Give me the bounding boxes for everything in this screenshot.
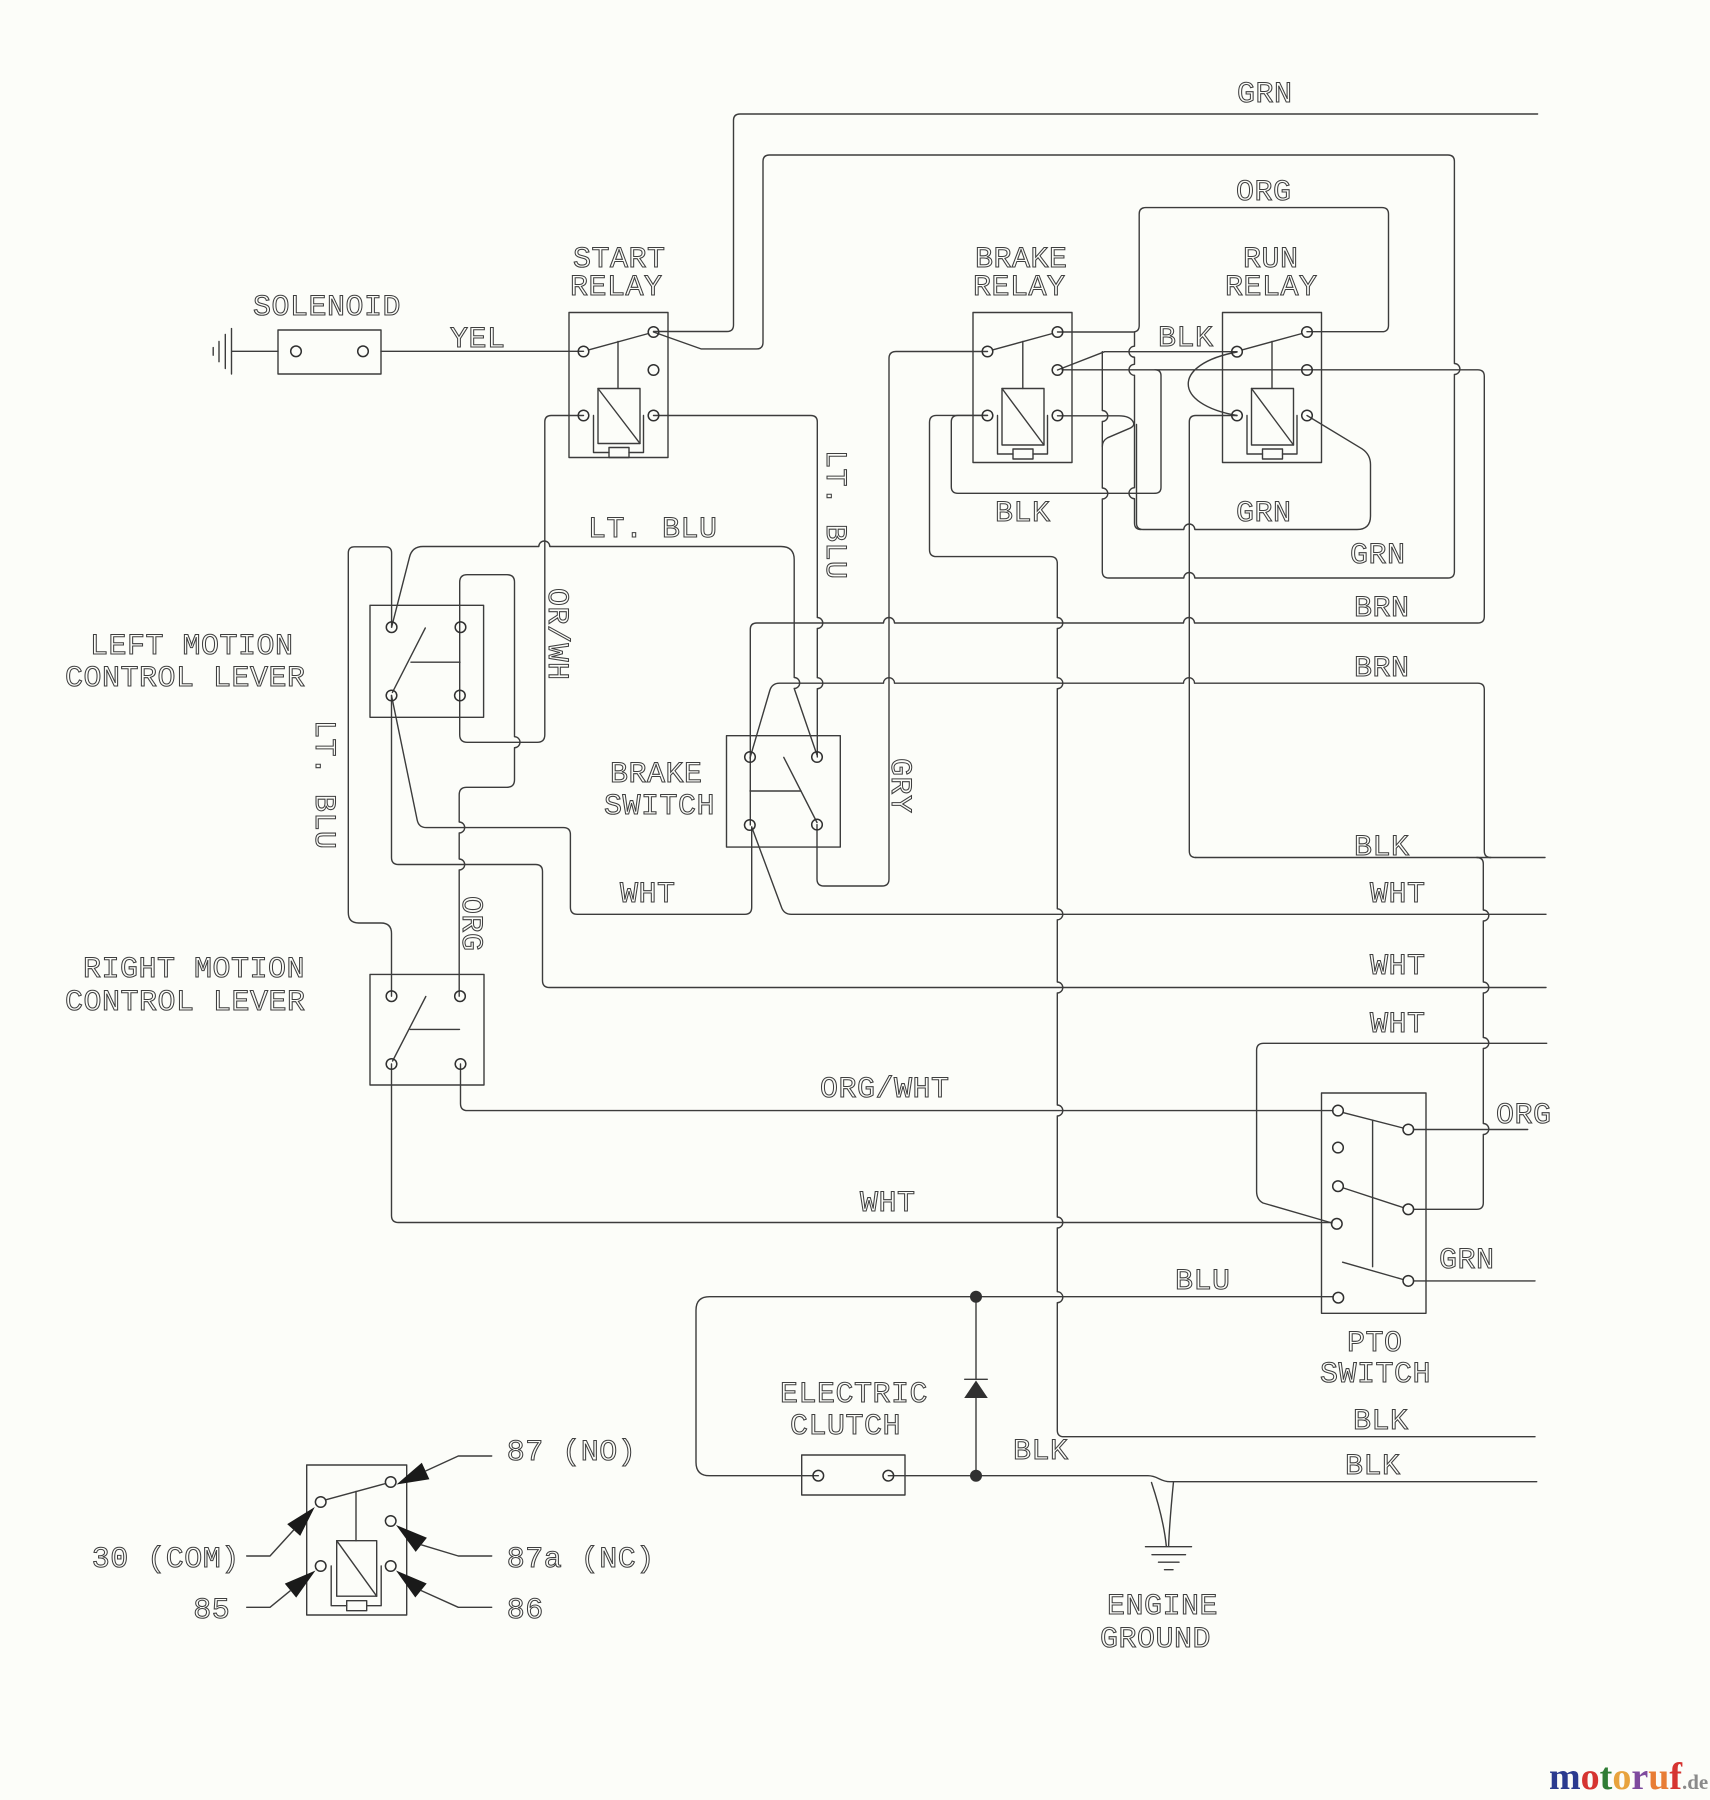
- svg-text:WHT: WHT: [1370, 878, 1426, 912]
- wire ORG PTO Q1 to right: [1414, 1129, 1528, 1131]
- brake switch arm: [784, 757, 817, 822]
- svg-text:CLUTCH: CLUTCH: [790, 1410, 901, 1444]
- run relay arc 30 to 85: [1188, 352, 1237, 416]
- wire GRY brake-switch to brake relay 30: [817, 352, 988, 887]
- svg-text:ENGINE: ENGINE: [1107, 1590, 1218, 1624]
- svg-text:CONTROL LEVER: CONTROL LEVER: [65, 986, 306, 1020]
- svg-text:SWITCH: SWITCH: [1320, 1358, 1431, 1392]
- svg-text:LT. BLU: LT. BLU: [306, 720, 340, 850]
- svg-text:LT. BLU: LT. BLU: [588, 513, 718, 547]
- PTO switch pins: [1333, 1105, 1344, 1116]
- run relay coil: [1252, 389, 1294, 446]
- wire BRN1 brake-switch 30 to run NC: [750, 370, 1484, 757]
- solenoid pins: [291, 346, 302, 357]
- legend relay resistor: [347, 1601, 367, 1611]
- left motion control lever box: [370, 605, 484, 717]
- wire run 85 stub down to BLK bus: [1189, 416, 1237, 858]
- svg-text:30 (COM): 30 (COM): [92, 1543, 240, 1577]
- run relay pins: [1232, 346, 1243, 357]
- svg-text:GRN: GRN: [1237, 78, 1293, 112]
- brake switch pins: [745, 752, 756, 763]
- run relay coil lead: [1271, 342, 1273, 389]
- wire solenoid ground lead: [232, 350, 278, 352]
- wire WHT right-lever BL to PTO P4: [392, 1064, 1333, 1223]
- brake switch box: [727, 736, 841, 847]
- wire LT BLU horizontal to brake-switch 87: [392, 541, 817, 755]
- PINS: [291, 327, 1414, 1572]
- svg-text:RELAY: RELAY: [570, 271, 663, 305]
- brake relay resistor: [1013, 449, 1033, 459]
- start relay U1 box: [569, 313, 668, 458]
- left lever pins: [386, 622, 397, 633]
- wire brake 87 to junction and ORG loop to run 87: [1058, 208, 1389, 332]
- PTO common bar: [1372, 1120, 1374, 1266]
- legend relay coil lead: [355, 1492, 357, 1541]
- svg-text:BRN: BRN: [1354, 592, 1410, 626]
- svg-text:LEFT MOTION: LEFT MOTION: [90, 630, 294, 664]
- svg-text:RELAY: RELAY: [1225, 271, 1318, 305]
- junction dot BLK diode: [970, 1470, 982, 1482]
- svg-text:SOLENOID: SOLENOID: [253, 291, 401, 325]
- wire BLK bus y857: [1196, 857, 1545, 859]
- run relay arm: [1243, 334, 1303, 350]
- svg-text:YEL: YEL: [450, 323, 506, 357]
- wire ORG/WHT right-lever BR to PTO P1: [461, 1064, 1334, 1111]
- motoruf.de logo: [1549, 1756, 1708, 1798]
- wire BLK clutch to engine ground and right: [888, 1476, 1536, 1482]
- wire GRN start-relay 87 to top bus: [654, 114, 1538, 332]
- legend relay coil: [337, 1541, 377, 1597]
- svg-text:BLK: BLK: [1353, 1405, 1409, 1439]
- solenoid: [278, 330, 381, 374]
- svg-text:BRN: BRN: [1354, 652, 1410, 686]
- legend relay pins: [315, 1497, 326, 1508]
- wire brake-switch 85 diagonal to WHT1: [752, 827, 1546, 914]
- start relay pins 30,87,87a,85,86: [578, 346, 589, 357]
- PTO arm 3: [1343, 1262, 1403, 1279]
- diode D1: [975, 1297, 977, 1476]
- wire GRN PTO Q3 to right: [1414, 1280, 1536, 1282]
- legend relay arm: [326, 1484, 386, 1500]
- svg-text:85: 85: [193, 1594, 230, 1628]
- brake switch common vertical: [749, 757, 751, 825]
- svg-text:RELAY: RELAY: [973, 271, 1066, 305]
- start relay arm: [589, 334, 649, 350]
- svg-text:WHT: WHT: [1370, 950, 1426, 984]
- svg-text:GRN: GRN: [1236, 497, 1292, 531]
- wire brake 86 hook down to GRN2: [1058, 416, 1134, 447]
- svg-text:OR/WH: OR/WH: [539, 588, 573, 681]
- wire left-lever BL vertical to y864 and WHT2: [392, 696, 1547, 988]
- svg-text:BLK: BLK: [1354, 831, 1410, 865]
- arrow 30 COM: [287, 1507, 315, 1536]
- svg-text:BLK: BLK: [1013, 1435, 1069, 1469]
- wire WHT3 PTO P4 up to right bus: [1257, 1043, 1547, 1223]
- wire brake coil inner loop y493: [951, 415, 1155, 493]
- wire ORG loop start-relay 87 to right column: [654, 155, 1460, 578]
- arrow 86: [396, 1571, 427, 1598]
- right lever arm: [393, 997, 426, 1062]
- start relay coil: [598, 389, 640, 444]
- run relay resistor: [1263, 449, 1283, 459]
- run relay box: [1223, 313, 1322, 463]
- wire LT BLU left-lever to right-lever: [348, 547, 391, 996]
- left lever arm: [392, 628, 425, 692]
- brake relay arm: [993, 334, 1053, 350]
- right motion control lever box: [370, 974, 484, 1085]
- engine ground symbol: [1146, 1547, 1192, 1570]
- svg-text:GROUND: GROUND: [1100, 1623, 1211, 1657]
- ground solenoid: [213, 329, 231, 374]
- svg-text:87 (NO): 87 (NO): [507, 1436, 637, 1470]
- start relay resistor: [609, 448, 629, 458]
- arrow 87 NO: [397, 1463, 430, 1485]
- right lever pins: [386, 991, 397, 1002]
- electric clutch box: [802, 1455, 905, 1495]
- svg-text:GRN: GRN: [1439, 1244, 1495, 1278]
- wire BLK right vertical to PTO Q2: [1414, 858, 1489, 1210]
- svg-text:ORG: ORG: [1496, 1099, 1552, 1133]
- brake switch bar: [750, 790, 801, 792]
- junction dot BLU diode: [970, 1291, 982, 1303]
- svg-text:WHT: WHT: [860, 1187, 916, 1221]
- svg-text:ORG/WHT: ORG/WHT: [820, 1073, 950, 1107]
- wire BRN2 brake-switch to right column: [750, 678, 1491, 858]
- svg-text:BLK: BLK: [1158, 322, 1214, 356]
- svg-text:BLK: BLK: [995, 497, 1051, 531]
- legend relay box: [307, 1465, 407, 1615]
- wire left-lever BL diagonal to y827 and WHT1: [392, 696, 752, 915]
- svg-text:BLK: BLK: [1345, 1450, 1401, 1484]
- svg-text:LT. BLU: LT. BLU: [817, 450, 851, 580]
- wire branch brake NC loop down: [1155, 370, 1161, 494]
- clutch pins: [813, 1470, 824, 1481]
- svg-text:ORG: ORG: [453, 896, 487, 952]
- svg-text:BRAKE: BRAKE: [610, 758, 703, 792]
- start relay coil lead: [617, 342, 619, 389]
- wire junction down x1136: [1129, 332, 1141, 530]
- brake relay pins: [982, 346, 993, 357]
- wire OR/WH start 85 to left-lever: [459, 416, 583, 997]
- wire BLK brake NC to run relay 30: [1058, 352, 1238, 370]
- wire BLU clutch loop to PTO P5: [696, 1297, 1333, 1476]
- svg-text:GRY: GRY: [882, 758, 916, 814]
- svg-text:WHT: WHT: [1370, 1008, 1426, 1042]
- arrow 87a NC: [396, 1525, 427, 1552]
- svg-text:PTO: PTO: [1347, 1327, 1403, 1361]
- PTO arm 1: [1344, 1113, 1404, 1128]
- svg-text:WHT: WHT: [620, 878, 676, 912]
- svg-text:ELECTRIC: ELECTRIC: [780, 1378, 928, 1412]
- PTO arm 2: [1344, 1188, 1404, 1208]
- wire start 86 down to brake-switch 87: [654, 416, 823, 758]
- svg-text:RIGHT MOTION: RIGHT MOTION: [83, 953, 305, 987]
- right lever bar: [410, 1028, 459, 1030]
- brake relay box: [973, 313, 1072, 463]
- arrow 85: [285, 1571, 316, 1598]
- svg-text:ORG: ORG: [1236, 176, 1292, 210]
- svg-text:GRN: GRN: [1350, 539, 1406, 573]
- wire GRN1 run coil loop: [1137, 416, 1371, 530]
- left lever bar: [411, 661, 460, 663]
- wire brake coil left outer loop to x1057 down to BLK clutch: [930, 415, 1536, 1436]
- engine ground taper: [1152, 1482, 1174, 1546]
- wire YEL solenoid to start relay: [381, 350, 584, 352]
- brake relay coil lead: [1022, 342, 1024, 389]
- svg-text:86: 86: [507, 1594, 544, 1628]
- PTO switch box: [1322, 1093, 1427, 1313]
- brake relay coil: [1002, 389, 1044, 446]
- svg-text:CONTROL LEVER: CONTROL LEVER: [65, 662, 306, 696]
- svg-text:87a (NC): 87a (NC): [507, 1543, 655, 1577]
- svg-text:SWITCH: SWITCH: [604, 790, 715, 824]
- svg-text:BLU: BLU: [1175, 1265, 1231, 1299]
